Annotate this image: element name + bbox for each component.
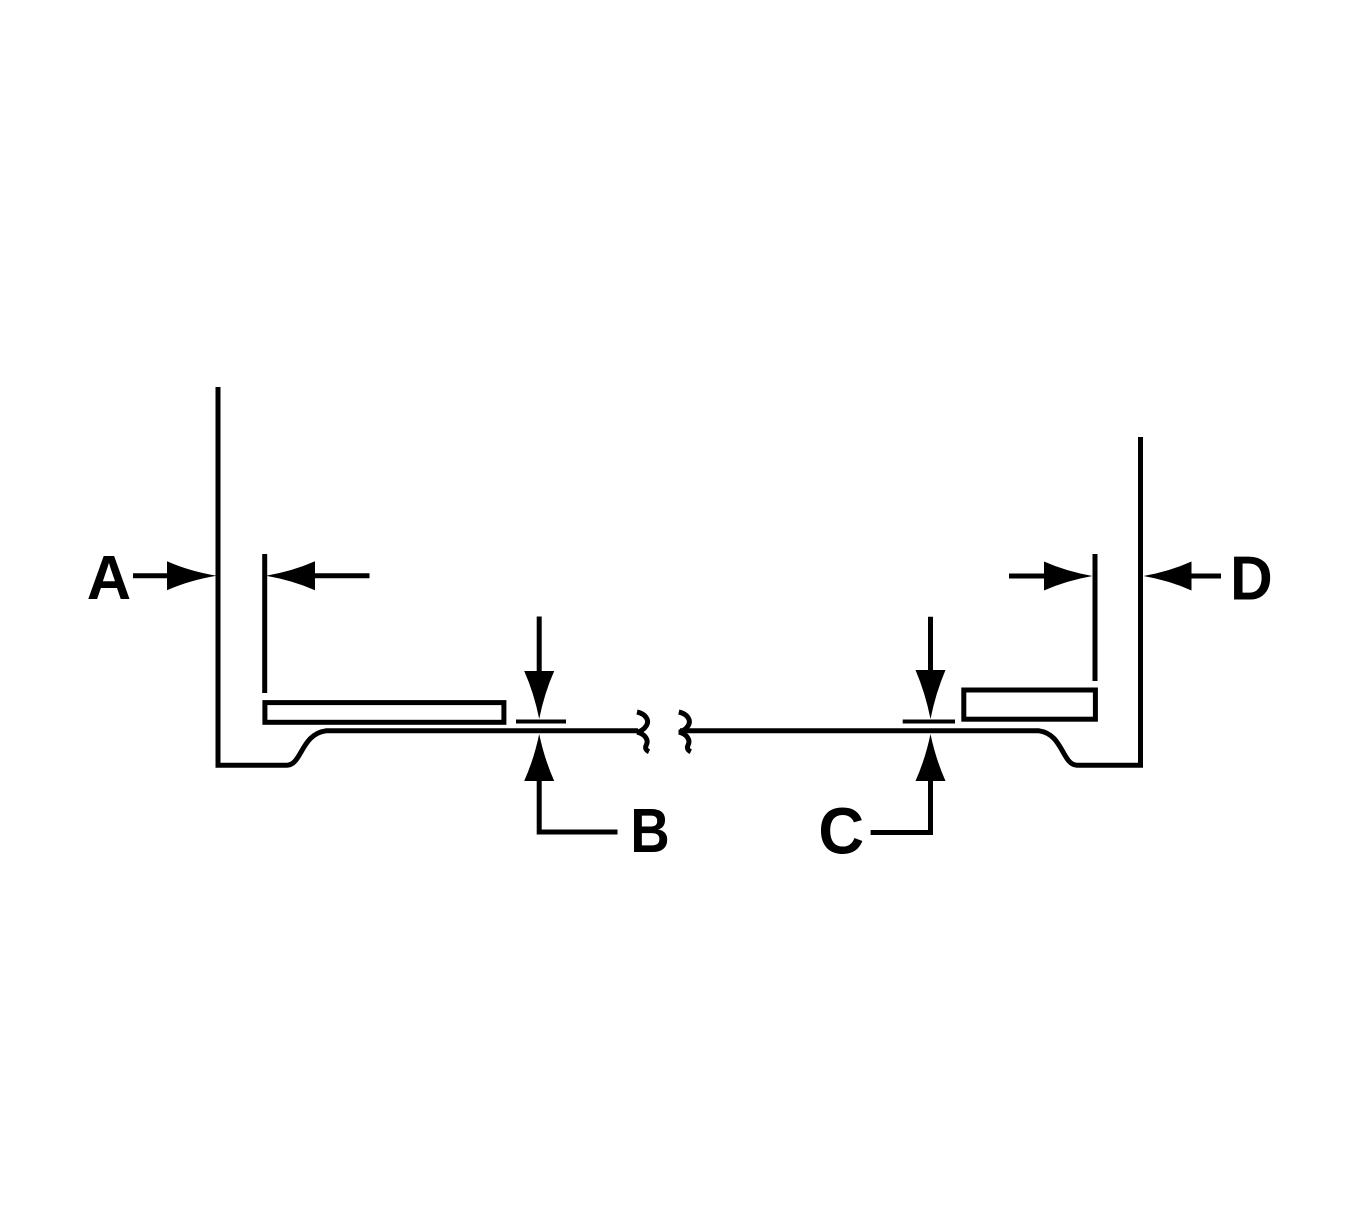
svg-text:B: B	[630, 796, 669, 865]
svg-text:D: D	[1230, 543, 1273, 613]
svg-text:A: A	[87, 544, 131, 614]
svg-text:C: C	[818, 793, 864, 867]
